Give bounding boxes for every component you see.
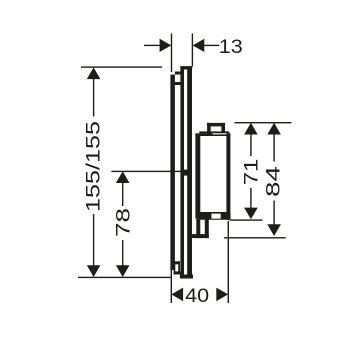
spindle block on centre line	[182, 170, 191, 176]
carrier channel upper rung	[175, 82, 181, 85]
dimension 78: centre extension line	[111, 171, 182, 172]
dimension 13: left arrow and leader	[144, 39, 171, 52]
dimension 84: dimension line with arrows	[267, 123, 281, 236]
svg-text:71: 71	[242, 159, 263, 186]
dimension 155/155: top extension line	[81, 66, 162, 67]
dimension 40: left arrow	[171, 288, 183, 302]
svg-text:13: 13	[219, 37, 243, 58]
dimension 13: right arrow and leader	[193, 39, 220, 52]
dimension 40: left extension line	[171, 270, 172, 303]
dimension 40: right extension line	[228, 221, 229, 303]
svg-text:84: 84	[264, 165, 285, 197]
svg-text:155/155: 155/155	[84, 121, 105, 212]
dimension 155/155: value label (rotated)	[84, 121, 105, 212]
carrier channel bottom box	[174, 261, 181, 274]
dimension 71: bottom extension line	[230, 219, 263, 220]
dimension 78: dimension line with arrows	[116, 171, 130, 277]
handle body (main rectangle)	[195, 133, 230, 220]
svg-text:78: 78	[114, 208, 135, 237]
dimension 71/84: shared top extension line	[235, 122, 292, 123]
dimension 84: bottom extension line	[224, 237, 286, 238]
basic set housing (back rectangle)	[180, 66, 193, 278]
dimension 13: value label	[219, 37, 243, 58]
dimension 155/155: bottom extension line	[78, 277, 171, 278]
dimension 84: value label (rotated)	[264, 165, 285, 197]
dimension 71: dimension line with arrows	[244, 123, 258, 220]
dimension 40: right arrow	[216, 288, 228, 302]
dimension 71: value label (rotated)	[242, 159, 263, 186]
handle knob (top button)	[207, 123, 225, 133]
wall plate (front escutcheon, side view)	[170, 75, 175, 270]
handle flange line	[199, 131, 229, 133]
dimension 13: right extension line	[192, 34, 193, 67]
dimension 40: value label	[185, 286, 209, 307]
svg-text:40: 40	[185, 286, 209, 307]
handle lower stem	[191, 219, 209, 238]
carrier channel lower rung	[174, 261, 180, 264]
carrier channel top edge	[175, 72, 181, 75]
dimension 13: left extension line	[171, 34, 172, 73]
dimension 78: value label (rotated)	[114, 208, 135, 237]
dimension 155/155: dimension line with arrows	[87, 67, 101, 277]
